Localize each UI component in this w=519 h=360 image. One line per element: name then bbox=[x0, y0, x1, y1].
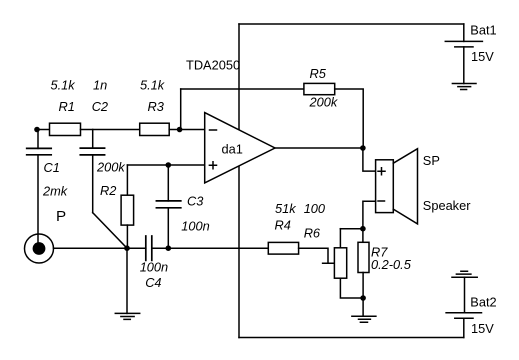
node dot plus input bbox=[166, 162, 172, 168]
wire speaker minus to node bbox=[363, 201, 376, 229]
wire plus input bbox=[127, 164, 204, 166]
op-amp U1 da1 bbox=[205, 113, 275, 183]
wire left power rail vertical bbox=[238, 24, 240, 338]
svg-text:0.2-0.5: 0.2-0.5 bbox=[371, 257, 412, 272]
capacitor C2 bbox=[92, 130, 94, 149]
svg-text:100: 100 bbox=[304, 201, 326, 216]
wire positive rail top bbox=[239, 23, 464, 25]
node dot bottom junction 1 bbox=[124, 245, 130, 251]
svg-text:100n: 100n bbox=[140, 259, 168, 274]
svg-text:51k: 51k bbox=[275, 201, 296, 216]
node dot output bbox=[360, 145, 366, 151]
svg-text:200k: 200k bbox=[309, 95, 338, 110]
connector P bbox=[25, 234, 54, 263]
wire P to bottom junction bbox=[54, 247, 128, 249]
svg-text:C3: C3 bbox=[187, 193, 203, 208]
wire output to speaker plus bbox=[363, 148, 376, 171]
node input junction bbox=[37, 129, 50, 131]
svg-text:C4: C4 bbox=[145, 275, 161, 290]
svg-text:R4: R4 bbox=[275, 218, 291, 233]
svg-text:1n: 1n bbox=[93, 77, 107, 92]
svg-text:SP: SP bbox=[423, 153, 440, 168]
resistor R7 bbox=[358, 242, 369, 272]
svg-text:Bat2: Bat2 bbox=[470, 295, 496, 310]
ground below input junction bbox=[126, 248, 128, 313]
capacitor C3 bbox=[167, 165, 169, 201]
svg-text:Speaker: Speaker bbox=[423, 198, 471, 213]
resistor R5 bbox=[304, 83, 335, 94]
svg-text:5.1k: 5.1k bbox=[51, 77, 76, 92]
wire R6 bottom bbox=[340, 278, 363, 298]
wire R4 to R6 tap bbox=[299, 248, 335, 263]
svg-text:C1: C1 bbox=[44, 160, 60, 175]
node dot speaker minus bbox=[360, 226, 366, 232]
speaker SP bbox=[376, 160, 394, 213]
resistor R1 bbox=[50, 123, 81, 135]
ground above Bat2 bbox=[452, 271, 477, 277]
svg-text:Bat1: Bat1 bbox=[470, 22, 496, 37]
svg-text:da1: da1 bbox=[222, 142, 243, 157]
speaker plus sign bbox=[378, 168, 385, 175]
ground below R6/R7 bbox=[362, 298, 364, 316]
wire node R6/R7 top bbox=[340, 228, 363, 230]
svg-text:R3: R3 bbox=[148, 99, 164, 114]
svg-text:5.1k: 5.1k bbox=[140, 77, 165, 92]
svg-text:15V: 15V bbox=[471, 49, 494, 64]
node dot C1/R1 bbox=[34, 127, 40, 133]
capacitor C4 bbox=[127, 247, 146, 249]
svg-text:R2: R2 bbox=[100, 183, 116, 198]
capacitor C1 bbox=[37, 130, 39, 149]
node dot R6/R7 bottom bbox=[360, 295, 366, 301]
wire diagonal C2 to bottom junction bbox=[93, 213, 127, 249]
svg-text:100n: 100n bbox=[181, 219, 209, 234]
node dot bottom junction 2 bbox=[166, 245, 172, 251]
wire feedback horizontal to R5 bbox=[181, 88, 304, 90]
op-amp plus sign bbox=[209, 162, 216, 169]
svg-text:R5: R5 bbox=[310, 66, 327, 81]
svg-text:C2: C2 bbox=[92, 99, 108, 114]
wire R1 to R3 bbox=[81, 129, 140, 131]
wire R3 to op-amp minus input bbox=[169, 129, 205, 131]
op-amp minus sign bbox=[210, 129, 217, 131]
svg-text:R1: R1 bbox=[59, 99, 75, 114]
svg-text:R6: R6 bbox=[304, 226, 321, 241]
wire R2 bottom bbox=[126, 225, 128, 248]
wire negative rail bottom bbox=[239, 337, 464, 339]
battery Bat1 bbox=[463, 24, 465, 41]
svg-text:TDA2050: TDA2050 bbox=[186, 58, 240, 73]
speaker minus sign bbox=[378, 200, 385, 202]
wire feedback vertical from minus node bbox=[180, 89, 182, 130]
wire R5 to output node bbox=[335, 89, 364, 148]
wire op-amp output bbox=[275, 147, 363, 149]
resistor R6 bbox=[334, 248, 346, 278]
wire R6 top bbox=[339, 229, 341, 248]
node dot minus input bbox=[177, 127, 183, 133]
resistor R4 bbox=[268, 242, 298, 254]
wire R2 top bbox=[126, 165, 128, 195]
resistor R2 bbox=[121, 195, 134, 225]
ground at Bat1 bbox=[452, 84, 476, 90]
resistor R3 bbox=[140, 123, 170, 135]
wire bottom junction to R4 bbox=[168, 247, 268, 249]
wire R7 top bbox=[362, 229, 364, 243]
svg-text:15V: 15V bbox=[471, 321, 494, 336]
svg-text:2mk: 2mk bbox=[42, 184, 68, 199]
svg-text:P: P bbox=[56, 208, 66, 225]
svg-text:200k: 200k bbox=[96, 160, 125, 175]
battery Bat2 bbox=[464, 277, 466, 313]
wire R7 bottom bbox=[362, 273, 364, 299]
